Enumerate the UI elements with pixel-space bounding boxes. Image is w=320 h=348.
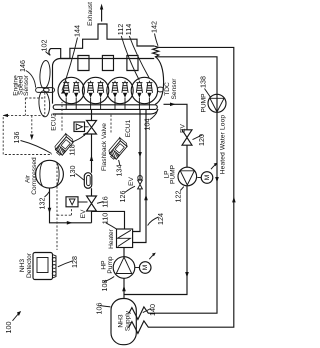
svg-text:106: 106 xyxy=(94,303,103,315)
svg-text:Sensor: Sensor xyxy=(23,74,30,96)
svg-text:Exhaust: Exhaust xyxy=(87,2,94,26)
svg-text:120: 120 xyxy=(197,134,206,146)
svg-text:100: 100 xyxy=(4,322,13,334)
svg-text:EV: EV xyxy=(80,209,87,218)
svg-text:118: 118 xyxy=(67,144,76,155)
svg-text:108: 108 xyxy=(100,280,109,292)
svg-text:TDC: TDC xyxy=(164,82,171,96)
svg-text:EV: EV xyxy=(180,124,187,133)
svg-text:142: 142 xyxy=(149,21,158,33)
svg-text:ECU2: ECU2 xyxy=(51,113,58,131)
svg-text:138: 138 xyxy=(198,76,207,88)
svg-text:124: 124 xyxy=(156,213,165,225)
svg-text:122: 122 xyxy=(174,191,183,203)
svg-text:PUMP: PUMP xyxy=(169,164,176,184)
svg-text:Detector: Detector xyxy=(26,252,33,278)
svg-text:102: 102 xyxy=(40,40,49,52)
svg-text:M: M xyxy=(142,265,149,271)
svg-text:Sensor: Sensor xyxy=(171,78,178,100)
svg-text:128: 128 xyxy=(70,256,79,268)
svg-text:NH3: NH3 xyxy=(117,314,124,328)
svg-text:146: 146 xyxy=(18,60,27,72)
svg-text:114: 114 xyxy=(124,24,133,35)
svg-text:116: 116 xyxy=(100,196,109,207)
svg-text:NH3: NH3 xyxy=(19,259,26,273)
svg-text:EV: EV xyxy=(128,177,135,186)
svg-text:126: 126 xyxy=(118,191,127,203)
svg-text:Compressed: Compressed xyxy=(31,157,38,195)
svg-text:132: 132 xyxy=(37,198,46,210)
svg-text:PUMP: PUMP xyxy=(201,93,208,113)
svg-text:Heater: Heater xyxy=(108,228,115,249)
svg-text:Pump: Pump xyxy=(107,256,114,274)
svg-text:M: M xyxy=(204,175,211,181)
svg-text:144: 144 xyxy=(73,25,82,37)
svg-text:130: 130 xyxy=(68,166,77,178)
svg-text:Supply: Supply xyxy=(124,310,131,331)
svg-text:136: 136 xyxy=(12,132,21,144)
svg-text:Heated Water Loop: Heated Water Loop xyxy=(220,115,227,175)
svg-text:134: 134 xyxy=(114,165,123,177)
svg-text:Flashback Valve: Flashback Valve xyxy=(101,123,108,171)
svg-text:110: 110 xyxy=(101,213,110,224)
svg-text:ECU1: ECU1 xyxy=(125,119,132,137)
svg-text:104: 104 xyxy=(142,119,151,131)
svg-text:140: 140 xyxy=(148,304,157,316)
